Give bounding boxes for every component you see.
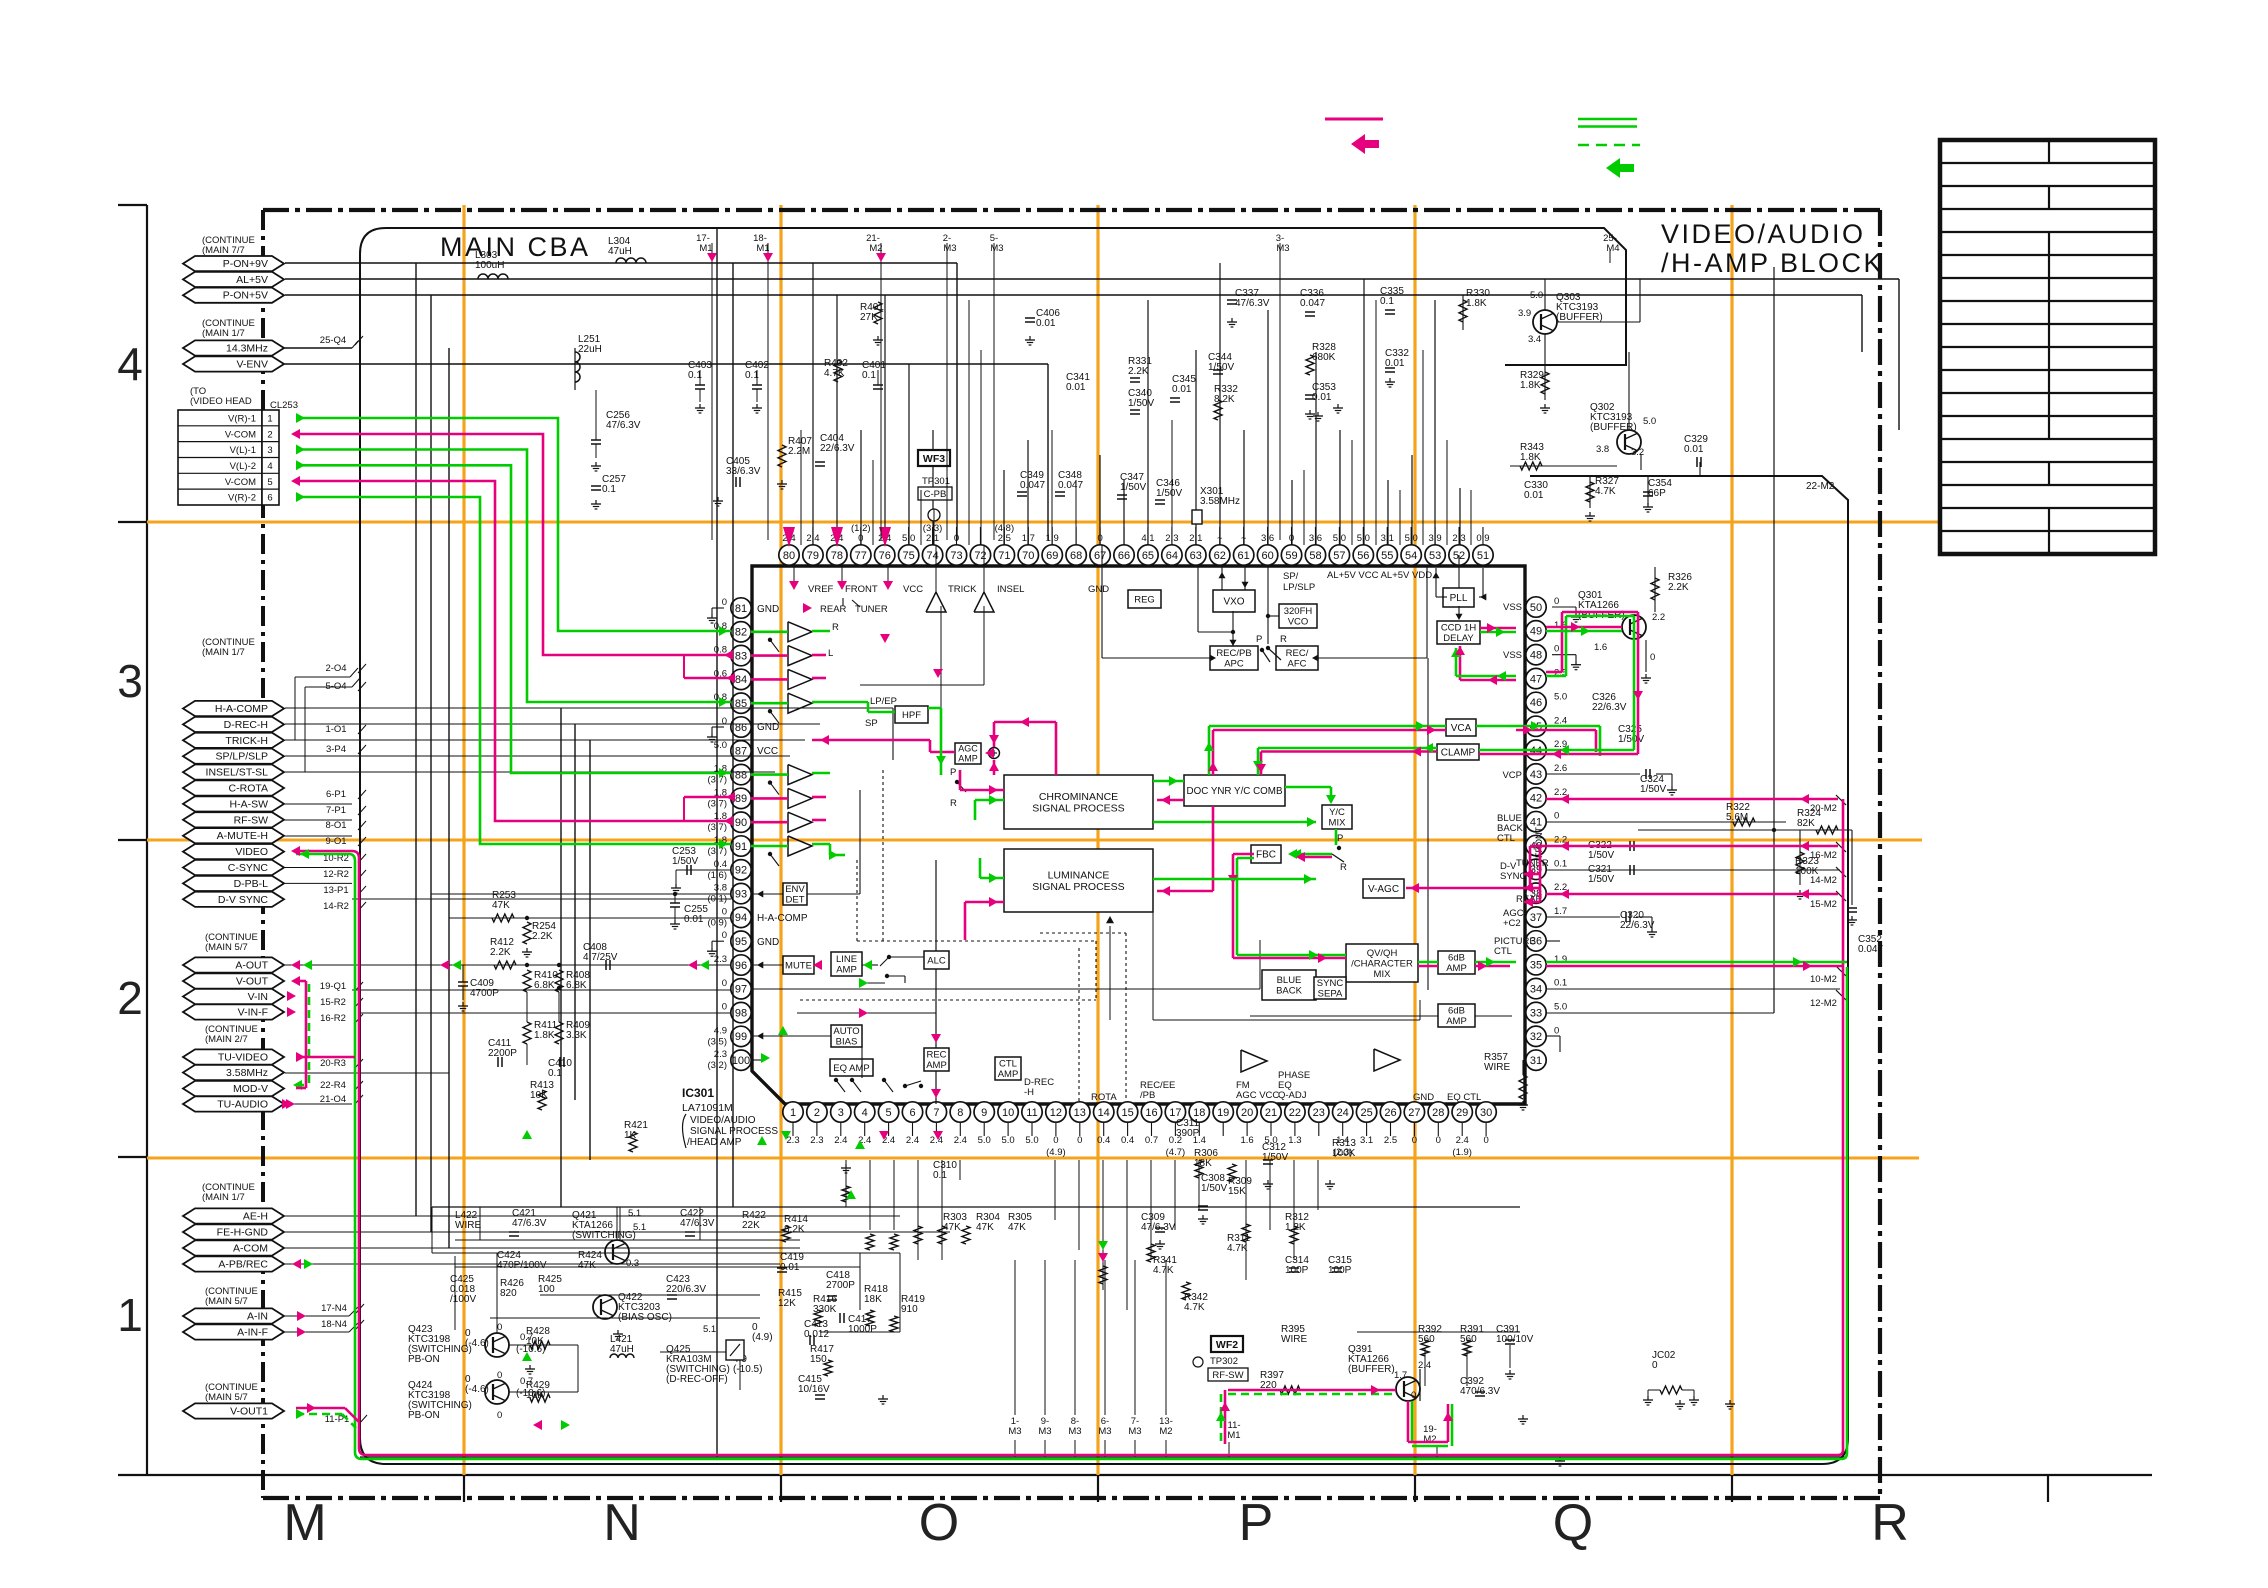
svg-text:820: 820	[500, 1288, 517, 1299]
svg-text:VREF: VREF	[808, 584, 834, 595]
svg-text:CLAMP: CLAMP	[1441, 748, 1476, 759]
svg-text:MUTE: MUTE	[785, 960, 812, 971]
svg-text:V(L)-1: V(L)-1	[230, 445, 256, 456]
svg-text:R: R	[950, 798, 957, 809]
svg-text:10: 10	[1002, 1107, 1014, 1119]
svg-text:82K: 82K	[1797, 818, 1815, 829]
svg-text:94: 94	[735, 912, 747, 924]
svg-text:AL+5V: AL+5V	[236, 274, 268, 286]
svg-text:1.8K: 1.8K	[1520, 380, 1541, 391]
svg-text:0: 0	[1077, 1135, 1082, 1146]
svg-text:GND: GND	[757, 604, 779, 615]
svg-text:A-MUTE-H: A-MUTE-H	[217, 830, 268, 842]
svg-text:320FH: 320FH	[1284, 606, 1313, 617]
svg-text:6dB: 6dB	[1448, 953, 1465, 964]
svg-text:MIX: MIX	[1374, 969, 1392, 980]
svg-text:55: 55	[1381, 550, 1393, 562]
svg-text:80: 80	[783, 550, 795, 562]
svg-text:LUMINANCE: LUMINANCE	[1048, 869, 1110, 881]
svg-text:0.7: 0.7	[520, 1376, 533, 1387]
svg-text:3.8: 3.8	[714, 883, 727, 894]
svg-text:HPF: HPF	[902, 710, 921, 721]
svg-text:SP: SP	[865, 718, 878, 729]
svg-text:47/6.3V: 47/6.3V	[512, 1218, 547, 1229]
svg-text:50: 50	[1530, 602, 1542, 614]
svg-text:11: 11	[1026, 1107, 1037, 1119]
svg-text:(-4.6): (-4.6)	[465, 1338, 489, 1349]
svg-text:73: 73	[950, 550, 962, 562]
svg-text:51: 51	[1477, 550, 1489, 562]
svg-text:97: 97	[735, 984, 747, 996]
svg-text:2.3: 2.3	[786, 1135, 799, 1146]
svg-text:560: 560	[1460, 1334, 1477, 1345]
svg-text:(MAIN 1/7: (MAIN 1/7	[202, 647, 245, 658]
svg-text:15: 15	[1121, 1107, 1133, 1119]
svg-text:21: 21	[1265, 1107, 1277, 1119]
svg-text:IC301: IC301	[682, 1086, 714, 1100]
svg-text:(BUFFER): (BUFFER)	[1348, 1364, 1395, 1375]
svg-text:75: 75	[903, 550, 915, 562]
svg-text:100: 100	[538, 1284, 555, 1295]
svg-text:GND: GND	[1088, 584, 1109, 595]
svg-text:ALC: ALC	[927, 955, 946, 966]
svg-text:0: 0	[722, 906, 727, 917]
svg-text:0.1: 0.1	[1554, 978, 1567, 989]
svg-text:63: 63	[1190, 550, 1202, 562]
svg-text:62: 62	[1214, 550, 1226, 562]
svg-text:V-IN-F: V-IN-F	[238, 1007, 268, 1019]
svg-text:1: 1	[267, 414, 272, 425]
svg-text:9-O1: 9-O1	[325, 836, 346, 847]
svg-text:22-R4: 22-R4	[320, 1080, 346, 1091]
svg-text:0.4: 0.4	[714, 859, 727, 870]
svg-text:13-P1: 13-P1	[323, 885, 348, 896]
svg-text:5.1: 5.1	[703, 1324, 716, 1335]
svg-text:M3: M3	[990, 243, 1003, 254]
svg-text:V-AGC: V-AGC	[1368, 884, 1399, 895]
svg-text:M3: M3	[1068, 1426, 1081, 1437]
svg-text:REC: REC	[926, 1050, 946, 1061]
svg-text:24: 24	[1337, 1107, 1349, 1119]
svg-text:5.0: 5.0	[978, 1135, 991, 1146]
svg-text:(MAIN 5/7: (MAIN 5/7	[205, 1296, 248, 1307]
svg-text:92: 92	[735, 865, 747, 877]
svg-text:P: P	[1239, 1494, 1274, 1552]
svg-text:P-ON+5V: P-ON+5V	[223, 290, 268, 302]
svg-text:D-V SYNC: D-V SYNC	[218, 894, 269, 906]
svg-text:100: 100	[732, 1055, 750, 1067]
svg-text:AMP: AMP	[958, 754, 978, 764]
svg-text:0.01: 0.01	[1066, 382, 1086, 393]
svg-text:(MAIN 5/7: (MAIN 5/7	[205, 1392, 248, 1403]
svg-text:0.1: 0.1	[688, 370, 702, 381]
svg-text:48: 48	[1530, 650, 1542, 662]
svg-text:47K: 47K	[1008, 1222, 1026, 1233]
svg-text:(BIAS OSC): (BIAS OSC)	[618, 1312, 672, 1323]
svg-text:AGC: AGC	[958, 744, 978, 754]
svg-text:47K: 47K	[492, 900, 510, 911]
svg-text:3.1: 3.1	[1360, 1135, 1373, 1146]
svg-text:47K: 47K	[578, 1260, 596, 1271]
svg-text:8.2K: 8.2K	[1214, 394, 1235, 405]
svg-text:(MAIN 5/7: (MAIN 5/7	[205, 942, 248, 953]
svg-text:53: 53	[1429, 550, 1441, 562]
svg-text:3: 3	[838, 1107, 844, 1119]
svg-text:59: 59	[1285, 550, 1297, 562]
svg-text:0.3: 0.3	[626, 1258, 639, 1269]
svg-text:22/6.3V: 22/6.3V	[1620, 920, 1655, 931]
svg-text:56: 56	[1357, 550, 1369, 562]
svg-text:6.8K: 6.8K	[534, 980, 555, 991]
svg-text:6-P1: 6-P1	[326, 789, 346, 800]
svg-text:FBC: FBC	[1256, 850, 1276, 861]
svg-text:AFC: AFC	[1288, 659, 1307, 670]
svg-text:21-O4: 21-O4	[320, 1094, 346, 1105]
svg-text:2.3: 2.3	[714, 1049, 727, 1060]
svg-text:5.1: 5.1	[633, 1222, 646, 1233]
svg-text:1/50V: 1/50V	[1640, 784, 1666, 795]
svg-text:0: 0	[497, 1322, 502, 1333]
svg-text:100uH: 100uH	[475, 260, 504, 271]
svg-text:H-A-COMP: H-A-COMP	[757, 913, 808, 924]
svg-text:(D-REC-OFF): (D-REC-OFF)	[666, 1374, 728, 1385]
svg-text:0.01: 0.01	[1172, 384, 1192, 395]
svg-text:2.2K: 2.2K	[490, 947, 511, 958]
svg-text:EQ CTL: EQ CTL	[1447, 1092, 1481, 1103]
svg-text:25: 25	[1360, 1107, 1372, 1119]
svg-text:15-M2: 15-M2	[1810, 899, 1837, 910]
svg-text:AMP: AMP	[1446, 963, 1467, 974]
svg-text:46: 46	[1530, 697, 1542, 709]
svg-text:100K: 100K	[1795, 866, 1819, 877]
svg-text:12K: 12K	[778, 1298, 796, 1309]
svg-text:89: 89	[735, 793, 747, 805]
svg-text:58: 58	[1309, 550, 1321, 562]
svg-text:P-ON+9V: P-ON+9V	[223, 258, 268, 270]
svg-text:R: R	[1340, 862, 1347, 873]
svg-text:910: 910	[901, 1304, 918, 1315]
svg-text:15-R2: 15-R2	[320, 997, 346, 1008]
svg-text:0.1: 0.1	[933, 1170, 947, 1181]
svg-text:0.012: 0.012	[804, 1329, 829, 1340]
svg-text:13: 13	[1074, 1107, 1086, 1119]
svg-text:1.6: 1.6	[1240, 1135, 1253, 1146]
svg-text:M3: M3	[943, 243, 956, 254]
svg-text:2.2K: 2.2K	[1668, 582, 1689, 593]
svg-text:V-IN: V-IN	[248, 991, 268, 1003]
svg-text:6.8K: 6.8K	[566, 980, 587, 991]
svg-text:/CHARACTER: /CHARACTER	[1351, 958, 1413, 969]
svg-text:V-COM: V-COM	[225, 477, 256, 488]
svg-text:1: 1	[790, 1107, 796, 1119]
svg-text:100P: 100P	[1285, 1265, 1309, 1276]
svg-text:BIAS: BIAS	[836, 1037, 858, 1048]
svg-text:0: 0	[722, 1002, 727, 1013]
svg-text:4: 4	[862, 1107, 868, 1119]
svg-text:84: 84	[735, 674, 747, 686]
svg-text:5-O4: 5-O4	[325, 681, 346, 692]
svg-text:5.0: 5.0	[1001, 1135, 1014, 1146]
svg-text:77: 77	[855, 550, 867, 562]
svg-text:REC/PB: REC/PB	[1216, 648, 1251, 659]
svg-text:4.7K: 4.7K	[824, 368, 845, 379]
svg-text:0: 0	[722, 930, 727, 941]
svg-text:0: 0	[497, 1370, 502, 1381]
svg-text:1/50V: 1/50V	[1120, 482, 1146, 493]
svg-text:100P: 100P	[1328, 1265, 1352, 1276]
svg-text:(4.7): (4.7)	[1166, 1147, 1186, 1158]
svg-text:57: 57	[1333, 550, 1345, 562]
svg-text:0: 0	[1554, 1025, 1559, 1036]
svg-text:1/50V: 1/50V	[1588, 874, 1614, 885]
svg-text:(MAIN 7/7: (MAIN 7/7	[202, 245, 245, 256]
svg-text:WF2: WF2	[1216, 1339, 1238, 1351]
svg-text:(MAIN 2/7: (MAIN 2/7	[205, 1034, 248, 1045]
svg-text:43: 43	[1530, 769, 1542, 781]
svg-text:(MAIN 1/7: (MAIN 1/7	[202, 328, 245, 339]
svg-text:0.1: 0.1	[862, 370, 876, 381]
svg-text:0.1: 0.1	[745, 370, 759, 381]
svg-text:28: 28	[1432, 1107, 1444, 1119]
svg-text:22: 22	[1289, 1107, 1301, 1119]
svg-text:7-P1: 7-P1	[326, 805, 346, 816]
svg-text:RF-SW: RF-SW	[234, 814, 268, 826]
svg-text:0.1: 0.1	[602, 484, 616, 495]
svg-text:78: 78	[831, 550, 843, 562]
svg-text:1000P: 1000P	[848, 1324, 877, 1335]
svg-text:H-A-SW: H-A-SW	[230, 798, 269, 810]
svg-text:2.5: 2.5	[1384, 1135, 1397, 1146]
svg-text:VXO: VXO	[1223, 597, 1244, 608]
svg-text:61: 61	[1238, 550, 1250, 562]
svg-text:5: 5	[886, 1107, 892, 1119]
svg-text:0.4: 0.4	[1097, 1135, 1110, 1146]
svg-text:0: 0	[722, 716, 727, 727]
svg-text:60: 60	[1261, 550, 1273, 562]
svg-text:A-IN-F: A-IN-F	[237, 1327, 268, 1339]
svg-text:4700P: 4700P	[470, 988, 499, 999]
svg-text:M3: M3	[1276, 243, 1289, 254]
svg-text:49: 49	[1530, 626, 1542, 638]
svg-text:0: 0	[1650, 652, 1655, 663]
svg-text:67: 67	[1094, 550, 1106, 562]
svg-text:M1: M1	[699, 243, 712, 254]
svg-text:27K: 27K	[860, 312, 878, 323]
svg-text:33/6.3V: 33/6.3V	[726, 466, 761, 477]
svg-text:6: 6	[267, 493, 272, 504]
svg-text:2.3: 2.3	[714, 954, 727, 965]
svg-text:(-10.5): (-10.5)	[733, 1364, 762, 1375]
svg-text:19-Q1: 19-Q1	[320, 981, 346, 992]
svg-text:2: 2	[117, 972, 143, 1024]
svg-text:/PB: /PB	[1140, 1090, 1155, 1101]
svg-text:AMP: AMP	[836, 965, 857, 976]
svg-text:-H: -H	[1024, 1087, 1034, 1098]
svg-text:VCA: VCA	[1451, 723, 1472, 734]
svg-text:1.7: 1.7	[1394, 1370, 1407, 1381]
svg-text:GND: GND	[1413, 1092, 1434, 1103]
svg-text:PB-ON: PB-ON	[408, 1354, 440, 1365]
svg-text:1.2K: 1.2K	[1285, 1222, 1306, 1233]
svg-text:90: 90	[735, 817, 747, 829]
svg-text:CCD 1H: CCD 1H	[1441, 623, 1477, 634]
svg-text:100K: 100K	[1332, 1148, 1356, 1159]
svg-text:5.1: 5.1	[628, 1208, 641, 1219]
svg-text:R: R	[1871, 1494, 1909, 1552]
svg-text:N: N	[603, 1494, 641, 1552]
svg-text:0.01: 0.01	[1036, 318, 1056, 329]
svg-text:47/6.3V: 47/6.3V	[680, 1218, 715, 1229]
svg-text:1/50V: 1/50V	[1208, 362, 1234, 373]
svg-text:M3: M3	[1098, 1426, 1111, 1437]
svg-text:0: 0	[1652, 1360, 1658, 1371]
svg-text:47/6.3V: 47/6.3V	[606, 420, 641, 431]
svg-text:27: 27	[1408, 1107, 1420, 1119]
svg-text:AMP: AMP	[926, 1060, 947, 1071]
svg-text:19: 19	[1217, 1107, 1229, 1119]
svg-text:TRICK-H: TRICK-H	[225, 735, 268, 747]
svg-text:M3: M3	[1008, 1426, 1021, 1437]
svg-text:TP301: TP301	[922, 476, 950, 487]
svg-text:VCC: VCC	[903, 584, 923, 595]
svg-text:FRONT: FRONT	[845, 584, 878, 595]
svg-text:3.9: 3.9	[1518, 308, 1531, 319]
svg-text:68: 68	[1070, 550, 1082, 562]
svg-text:MIX: MIX	[1329, 818, 1347, 829]
svg-text:14-R2: 14-R2	[323, 901, 349, 912]
svg-text:Q: Q	[1553, 1494, 1593, 1552]
svg-text:2.4: 2.4	[1456, 1135, 1469, 1146]
svg-text:71: 71	[998, 550, 1010, 562]
svg-text:/100V: /100V	[450, 1294, 476, 1305]
svg-text:C-SYNC: C-SYNC	[228, 862, 269, 874]
svg-text:DOC YNR Y/C COMB: DOC YNR Y/C COMB	[1187, 786, 1283, 797]
svg-text:R: R	[832, 622, 839, 633]
svg-text:2: 2	[267, 429, 272, 440]
svg-text:M1: M1	[1227, 1430, 1240, 1441]
svg-text:WIRE: WIRE	[455, 1220, 481, 1231]
svg-text:(-10.6): (-10.6)	[516, 1388, 545, 1399]
svg-text:DET: DET	[786, 895, 805, 906]
svg-text:2.2: 2.2	[1652, 612, 1665, 623]
svg-text:1.3: 1.3	[1288, 1135, 1301, 1146]
svg-text:2-O4: 2-O4	[325, 663, 346, 674]
svg-text:0: 0	[1554, 596, 1559, 607]
svg-text:220/6.3V: 220/6.3V	[666, 1284, 706, 1295]
svg-text:V-ENV: V-ENV	[236, 359, 268, 371]
svg-text:18-N4: 18-N4	[321, 1319, 347, 1330]
svg-text:91: 91	[735, 841, 747, 853]
svg-text:SYNC: SYNC	[1317, 978, 1344, 989]
svg-text:VCC: VCC	[757, 746, 778, 757]
svg-text:5.0: 5.0	[1530, 290, 1543, 301]
svg-text:2700P: 2700P	[826, 1280, 855, 1291]
svg-text:LP/EP: LP/EP	[870, 696, 897, 707]
svg-text:0.047: 0.047	[1858, 944, 1883, 955]
svg-text:Q-ADJ: Q-ADJ	[1278, 1090, 1307, 1101]
svg-text:9: 9	[981, 1107, 987, 1119]
svg-text:2.4: 2.4	[954, 1135, 967, 1146]
svg-text:37: 37	[1530, 912, 1542, 924]
svg-text:65: 65	[1142, 550, 1154, 562]
svg-text:V(L)-2: V(L)-2	[230, 461, 256, 472]
svg-text:680K: 680K	[1312, 352, 1336, 363]
svg-text:AL+5V VCC AL+5V VDD: AL+5V VCC AL+5V VDD	[1327, 570, 1432, 581]
svg-text:66: 66	[1118, 550, 1130, 562]
svg-text:TRICK: TRICK	[948, 584, 977, 595]
svg-text:D-PB-L: D-PB-L	[234, 878, 269, 890]
svg-text:1-O1: 1-O1	[325, 724, 346, 735]
svg-text:TU-AUDIO: TU-AUDIO	[217, 1099, 268, 1111]
svg-text:96: 96	[735, 960, 747, 972]
svg-text:C-PB: C-PB	[924, 489, 947, 500]
svg-text:5: 5	[267, 477, 272, 488]
svg-text:LP/SLP: LP/SLP	[1283, 582, 1315, 593]
svg-text:470P/100V: 470P/100V	[497, 1260, 547, 1271]
svg-text:0: 0	[722, 978, 727, 989]
svg-text:1.8K: 1.8K	[1466, 298, 1487, 309]
svg-text:2.4: 2.4	[834, 1135, 847, 1146]
svg-text:0.4: 0.4	[1121, 1135, 1134, 1146]
svg-text:M4: M4	[1606, 243, 1619, 254]
svg-text:8-O1: 8-O1	[325, 820, 346, 831]
svg-text:(SWITCHING): (SWITCHING)	[572, 1230, 636, 1241]
svg-text:VIDEO/AUDIO: VIDEO/AUDIO	[1661, 219, 1866, 249]
svg-text:VIDEO/AUDIO: VIDEO/AUDIO	[690, 1115, 756, 1126]
svg-text:VSS: VSS	[1503, 650, 1522, 661]
svg-text:93: 93	[735, 888, 747, 900]
svg-text:72: 72	[974, 550, 986, 562]
svg-text:M2: M2	[1423, 1434, 1436, 1445]
svg-text:0.1: 0.1	[1554, 858, 1567, 869]
svg-text:L: L	[828, 648, 833, 659]
svg-text:RF-SW: RF-SW	[1212, 1370, 1243, 1381]
svg-text:2.2K: 2.2K	[1128, 366, 1149, 377]
svg-text:0: 0	[1554, 644, 1559, 655]
svg-text:0.047: 0.047	[1300, 298, 1325, 309]
svg-text:A-COM: A-COM	[233, 1243, 268, 1255]
svg-text:FE-H-GND: FE-H-GND	[217, 1227, 269, 1239]
svg-text:0: 0	[722, 597, 727, 608]
svg-text:3.2: 3.2	[1631, 447, 1644, 458]
svg-text:5.0: 5.0	[1554, 691, 1567, 702]
svg-text:P: P	[950, 767, 956, 778]
svg-text:INSEL: INSEL	[997, 584, 1024, 595]
svg-text:42: 42	[1530, 793, 1542, 805]
svg-text:AGC VCC: AGC VCC	[1236, 1090, 1279, 1101]
svg-text:(MAIN 1/7: (MAIN 1/7	[202, 1192, 245, 1203]
svg-text:99: 99	[735, 1031, 747, 1043]
svg-text:SEPA: SEPA	[1318, 989, 1343, 1000]
svg-text:(1.9): (1.9)	[1452, 1147, 1472, 1158]
svg-text:0.01: 0.01	[1524, 490, 1544, 501]
svg-text:1/50V: 1/50V	[1262, 1152, 1288, 1163]
svg-text:47: 47	[1530, 673, 1542, 685]
svg-text:REC/: REC/	[1286, 648, 1309, 659]
svg-text:Y/C: Y/C	[1329, 807, 1345, 818]
svg-text:5.0: 5.0	[1554, 1001, 1567, 1012]
svg-text:1/50V: 1/50V	[1156, 488, 1182, 499]
svg-text:3.3K: 3.3K	[566, 1030, 587, 1041]
svg-text:WIRE: WIRE	[1281, 1334, 1307, 1345]
svg-text:D-REC-H: D-REC-H	[224, 719, 268, 731]
svg-text:30: 30	[1480, 1107, 1492, 1119]
svg-text:LINE: LINE	[836, 954, 857, 965]
svg-text:BACK: BACK	[1276, 986, 1303, 997]
svg-text:32: 32	[1530, 1031, 1542, 1043]
svg-text:22K: 22K	[742, 1220, 760, 1231]
svg-text:79: 79	[807, 550, 819, 562]
